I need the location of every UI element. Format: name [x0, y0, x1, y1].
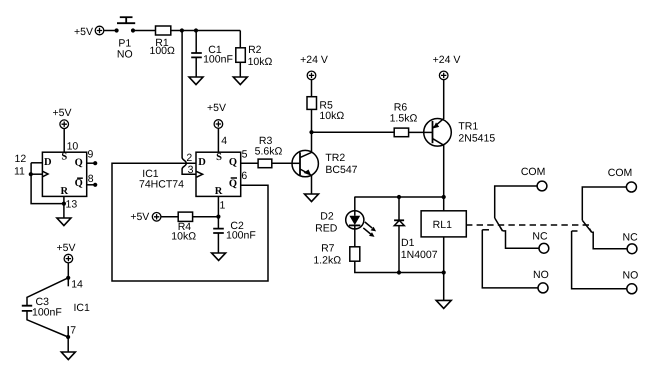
relay coil RL1: [421, 211, 466, 237]
LED D2 RED: [315, 210, 376, 237]
svg-text:D1: D1: [401, 237, 415, 249]
svg-text:10kΩ: 10kΩ: [319, 110, 344, 122]
ground (RL1): [436, 300, 451, 308]
svg-text:IC1: IC1: [74, 302, 91, 314]
svg-text:NO: NO: [117, 49, 133, 61]
svg-text:1.5kΩ: 1.5kΩ: [390, 112, 418, 124]
wire NO 2: [572, 231, 627, 289]
svg-text:14: 14: [71, 279, 83, 291]
wire top relay rail: [354, 196, 443, 198]
wire pin12 D input: [31, 162, 42, 164]
svg-text:COM: COM: [521, 166, 546, 178]
node P1 left contact: [115, 28, 119, 32]
wire COM 2: [582, 187, 626, 220]
node pin1 junction: [216, 215, 220, 219]
node D1 bottom: [397, 270, 401, 274]
node pin7: [66, 335, 70, 339]
clock triangle (IC1): [197, 171, 203, 177]
node TR1 collector / RL1: [442, 195, 446, 199]
svg-text:NO: NO: [623, 269, 639, 281]
power +24V (R5): [300, 54, 328, 80]
svg-text:D: D: [44, 157, 52, 168]
resistor R6 1.5k: [390, 102, 418, 137]
switch arm 1: [495, 218, 503, 231]
wire pin4: [217, 128, 219, 152]
wire pin13 R: [63, 197, 65, 219]
ground (C1): [189, 77, 203, 85]
wire C2 to ground: [217, 233, 219, 253]
wire pin14 to C3: [27, 278, 68, 306]
svg-text:Q: Q: [229, 157, 237, 168]
wire R7 to bottom rail: [355, 261, 444, 272]
clock triangle (left FF): [42, 171, 48, 177]
svg-text:R: R: [61, 186, 69, 197]
node pin9 end: [93, 161, 97, 165]
svg-text:12: 12: [15, 153, 27, 165]
wire rail to LED: [354, 197, 356, 211]
wire pin10: [63, 129, 65, 153]
wire rail to RL1: [443, 197, 445, 211]
wire C3 to pin7: [27, 311, 68, 337]
wire RL1 to bottom node: [443, 237, 445, 273]
svg-text:100Ω: 100Ω: [150, 45, 176, 57]
terminal NO 2: [627, 284, 637, 294]
wire P1 to R1: [133, 30, 156, 32]
ground (left FF): [57, 218, 71, 226]
resistor R4 10k: [171, 212, 196, 242]
svg-text:+5V: +5V: [207, 102, 226, 114]
wire NO 1: [482, 230, 538, 288]
wire pin9 Q out: [87, 162, 95, 164]
node pin13: [62, 202, 66, 206]
node pins 11-12 tie: [29, 172, 33, 176]
svg-text:8: 8: [88, 173, 94, 185]
svg-text:10kΩ: 10kΩ: [171, 230, 196, 242]
capacitor C2 100nF: [213, 220, 256, 242]
wire +24V to R5: [311, 80, 313, 97]
terminal COM 1: [537, 181, 547, 191]
capacitor C3 100nF: [22, 296, 62, 319]
wire pin11 clock input: [31, 173, 42, 175]
wire corner to R2: [239, 31, 241, 48]
svg-text:1: 1: [220, 199, 226, 211]
pushbutton P1: [117, 17, 135, 60]
svg-text:+5V: +5V: [130, 211, 149, 223]
transistor TR1 2N5415: [424, 119, 496, 198]
wire arm to NC 1: [503, 231, 539, 248]
wire R6 to TR1 base: [409, 131, 433, 133]
svg-text:1N4007: 1N4007: [401, 249, 438, 261]
power +5V (IC1 pin4): [207, 102, 226, 128]
svg-text:+5V: +5V: [74, 26, 93, 38]
capacitor C1 100nF: [191, 44, 233, 66]
NO contact tick 2: [572, 230, 578, 232]
svg-text:S: S: [216, 152, 222, 163]
node RL1 bottom: [442, 270, 446, 274]
svg-text:+24 V: +24 V: [433, 54, 461, 66]
svg-text:13: 13: [66, 199, 78, 211]
dashed actuation line: [466, 224, 590, 226]
svg-text:11: 11: [14, 165, 25, 177]
svg-text:2: 2: [186, 152, 192, 164]
svg-text:10: 10: [67, 141, 79, 153]
svg-text:Q: Q: [229, 178, 237, 189]
svg-text:P1: P1: [118, 37, 131, 49]
svg-text:10kΩ: 10kΩ: [248, 56, 273, 68]
svg-text:RED: RED: [315, 223, 338, 235]
svg-text:R: R: [215, 186, 223, 197]
NO contact tick 1: [482, 229, 489, 231]
svg-text:S: S: [61, 152, 67, 163]
svg-text:D2: D2: [320, 210, 334, 222]
wire pin1 R: [217, 196, 219, 216]
svg-text:Q: Q: [75, 157, 83, 168]
svg-text:BC547: BC547: [325, 164, 357, 176]
node pin14: [66, 276, 70, 280]
resistor R2 10k: [236, 44, 273, 68]
wire node to R6: [312, 131, 395, 133]
ground (R2): [233, 77, 247, 85]
wire LED to R7: [354, 229, 356, 247]
svg-text:NO: NO: [533, 269, 549, 281]
wire button node down to IC1 pin3 with hop over D line: [182, 31, 196, 175]
wire supply to P1: [104, 30, 117, 32]
svg-text:+24 V: +24 V: [300, 54, 328, 66]
wire node to C1: [195, 31, 197, 54]
svg-text:+5V: +5V: [57, 242, 76, 254]
wire pin5 Q to R3: [241, 162, 258, 164]
wire pin14: [67, 263, 69, 286]
svg-text:4: 4: [221, 135, 227, 147]
svg-text:2N5415: 2N5415: [458, 133, 495, 145]
svg-text:D: D: [198, 157, 206, 168]
wire +24V to TR1 emitter: [443, 80, 445, 119]
IC1 unused half flip-flop box: [42, 152, 86, 196]
svg-text:NC: NC: [532, 231, 548, 243]
svg-text:R2: R2: [248, 44, 262, 56]
wire +5V to R4: [161, 216, 178, 218]
svg-text:TR2: TR2: [325, 152, 345, 164]
ground (pin7): [61, 352, 75, 360]
wire C1 to ground: [195, 57, 197, 77]
svg-text:9: 9: [88, 149, 94, 161]
wire R1 to R2 corner: [171, 30, 241, 32]
svg-text:TR1: TR1: [458, 121, 478, 133]
node C1 top: [194, 28, 198, 32]
IC1 main flip-flop box: [196, 152, 241, 196]
resistor R5 10k: [307, 97, 344, 122]
wire pin8 Qbar out: [87, 184, 95, 186]
wire node to C2: [217, 217, 219, 229]
svg-text:7: 7: [70, 325, 76, 337]
node D1 top: [397, 195, 401, 199]
terminal NO 1: [538, 283, 548, 293]
power +5V supply (button): [74, 26, 104, 38]
svg-text:6: 6: [241, 170, 247, 182]
wire COM 1: [495, 186, 537, 218]
diode D1 1N4007: [394, 197, 438, 273]
wire arm to NC 2: [592, 232, 627, 249]
wire R5 to node: [311, 109, 313, 132]
svg-text:Q: Q: [75, 178, 83, 189]
wire Qbar feedback loop to D (pin 2): [112, 163, 268, 281]
node button signal: [180, 28, 184, 32]
node TR2 collector / R5: [309, 130, 313, 134]
svg-text:5.6kΩ: 5.6kΩ: [255, 145, 283, 157]
terminal NC 2: [627, 244, 637, 254]
wire R2 to ground: [239, 62, 241, 77]
resistor R7 1.2k: [313, 243, 359, 267]
node pin8 end: [93, 183, 97, 187]
wire to ground (RL1): [443, 273, 445, 301]
resistor R3 5.6k: [255, 135, 283, 168]
svg-text:NC: NC: [623, 231, 639, 243]
svg-text:3: 3: [188, 164, 194, 176]
svg-text:5: 5: [242, 149, 248, 161]
resistor R1 100ohm: [150, 26, 176, 57]
svg-text:74HCT74: 74HCT74: [139, 179, 184, 191]
ground (C2): [212, 253, 226, 260]
svg-text:R7: R7: [321, 243, 335, 255]
svg-text:+5V: +5V: [53, 107, 72, 119]
wire R3 to TR2 base: [272, 162, 300, 164]
terminal NC 1: [539, 243, 549, 253]
svg-text:COM: COM: [608, 167, 633, 179]
wire R4 to node: [193, 216, 219, 218]
svg-text:1.2kΩ: 1.2kΩ: [313, 254, 341, 266]
power +5V (C3 / pin14): [57, 242, 76, 263]
wire pin7 to ground: [67, 326, 69, 352]
svg-text:100nF: 100nF: [32, 306, 62, 318]
svg-text:100nF: 100nF: [226, 230, 256, 242]
wire tie 12-11-13: [31, 163, 64, 204]
power +5V (left FF pin10): [53, 107, 72, 129]
transistor TR2 BC547: [292, 132, 358, 194]
power +24V (TR1): [433, 54, 461, 80]
switch arm 2: [582, 220, 591, 232]
ground (TR2 emitter): [305, 194, 319, 202]
svg-text:RL1: RL1: [433, 219, 452, 231]
svg-text:100nF: 100nF: [203, 54, 233, 66]
terminal COM 2: [626, 182, 636, 192]
power +5V (R4): [130, 211, 161, 223]
